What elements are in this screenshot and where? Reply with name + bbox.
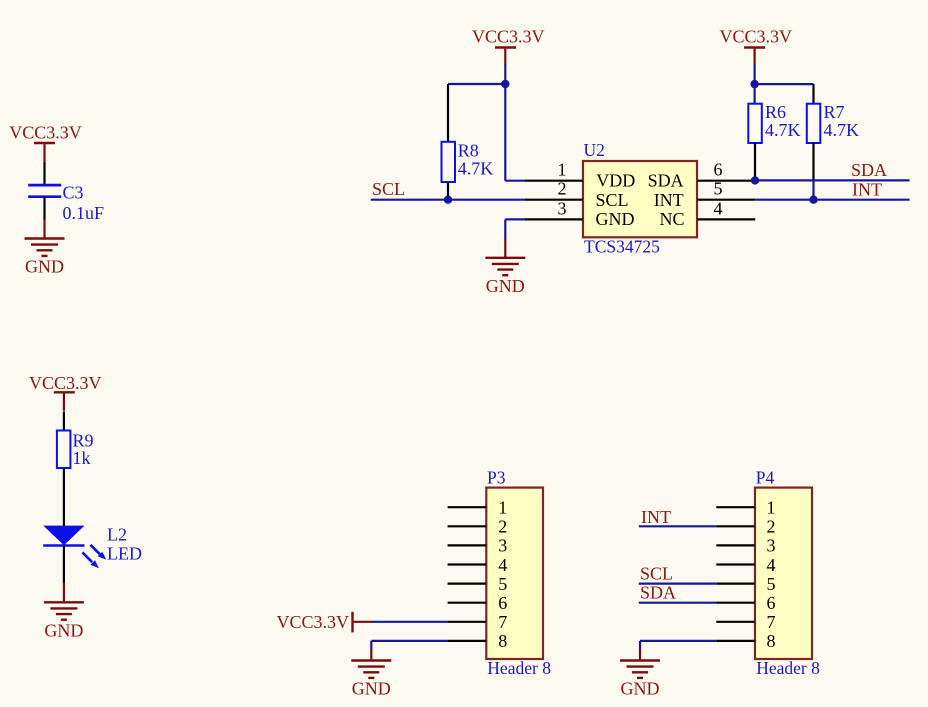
junction at R8 bottom / SCL [444,196,452,204]
svg-text:7: 7 [767,612,776,632]
wire P4 pin 8 to GND [640,641,716,650]
svg-text:Header 8: Header 8 [487,658,551,678]
svg-text:8: 8 [498,631,507,651]
junction VCC/R6/R7 [750,80,758,88]
P3 pin 5 [448,574,508,594]
wire C3 bottom to GND [43,197,45,220]
wire R9 to LED [63,468,65,526]
svg-text:2: 2 [498,517,507,537]
svg-text:2: 2 [767,517,776,537]
svg-text:TCS34725: TCS34725 [584,236,660,256]
wire net INT to P4 pin 2 [639,525,717,527]
svg-text:7: 7 [498,612,507,632]
junction R7/INT [809,196,817,204]
P4 pin 2 [716,517,775,537]
svg-text:GND: GND [25,257,64,277]
svg-text:VCC3.3V: VCC3.3V [720,27,793,47]
svg-text:INT: INT [641,507,671,527]
P3 pin 1 [448,498,508,518]
wire VCC to P3 pin 7 [371,621,447,623]
svg-text:SCL: SCL [372,179,405,199]
svg-text:NC: NC [659,209,684,229]
svg-text:6: 6 [767,593,776,613]
svg-text:GND: GND [44,620,83,640]
svg-text:INT: INT [852,179,882,199]
resistor R9 1k [57,431,94,469]
svg-text:SCL: SCL [640,564,673,584]
wire LED to GND [63,546,65,584]
svg-text:R8: R8 [458,140,479,160]
pin 5 INT [654,179,756,210]
pin 4 NC [659,198,755,229]
wire branch to R7 [755,83,814,85]
wire net SCL to P4 pin 5 [639,582,717,584]
svg-text:5: 5 [498,574,507,594]
svg-text:6: 6 [498,593,507,613]
svg-text:3: 3 [558,198,567,218]
svg-text:U2: U2 [584,140,605,160]
svg-text:4: 4 [714,198,723,218]
ground at LED [44,583,84,641]
svg-text:2: 2 [558,179,567,199]
svg-text:L2: L2 [107,524,127,544]
svg-text:Header 8: Header 8 [756,658,820,678]
svg-text:VDD: VDD [596,170,635,190]
wire VCC down to R6 [753,65,755,105]
power port VCC3.3V at R8 [472,27,545,66]
svg-text:5: 5 [767,574,776,594]
svg-text:VCC3.3V: VCC3.3V [29,373,102,393]
P3 pin 3 [448,536,508,556]
svg-text:5: 5 [714,179,723,199]
svg-text:SDA: SDA [640,583,676,603]
pin 2 SCL [525,179,629,210]
svg-text:LED: LED [107,543,142,563]
P3 pin 8 [448,631,508,651]
svg-text:VCC3.3V: VCC3.3V [9,123,82,143]
resistor R8 4.7K [442,84,494,200]
power port VCC3.3V at P3 pin 7 [276,612,371,633]
LED L2 [43,524,142,568]
resistor R6 4.7K [748,102,800,180]
svg-text:C3: C3 [63,182,84,202]
svg-text:VCC3.3V: VCC3.3V [472,27,545,47]
svg-text:4.7K: 4.7K [824,120,860,140]
P3 pin 7 [448,612,508,632]
svg-text:3: 3 [498,536,507,556]
pin 3 GND [525,198,635,229]
LED light arrow 1 [90,545,100,555]
svg-text:4: 4 [767,555,776,575]
wire branch to R8 top [448,83,505,85]
wire pin 3 to GND [505,219,525,239]
svg-text:4: 4 [498,555,507,575]
P4 pin 8 [716,631,775,651]
svg-text:P4: P4 [756,467,775,487]
connector P4 Header 8 body [755,467,820,678]
svg-text:GND: GND [621,679,660,699]
pin 6 SDA [648,160,756,191]
power port VCC3.3V at C3 [9,123,82,164]
svg-text:R7: R7 [824,102,845,122]
op-amp U2 TCS34725 body [583,140,697,256]
svg-text:P3: P3 [487,467,506,487]
svg-text:R6: R6 [765,102,786,122]
ground at U2 [485,239,525,296]
svg-text:GND: GND [486,276,525,296]
svg-text:SDA: SDA [648,170,684,190]
ground at C3 [25,219,65,276]
svg-text:6: 6 [714,160,723,180]
power port VCC3.3V at R6/R7 [720,27,793,66]
P4 pin 1 [716,498,775,518]
svg-text:1: 1 [498,498,507,518]
svg-text:1: 1 [767,498,776,518]
P4 pin 6 [716,593,775,613]
wire net INT right [755,199,909,201]
ground at P4 [620,649,660,699]
junction at VCC/R8 branch [501,80,509,88]
P4 pin 3 [716,536,775,556]
wire VCC to R9 [63,411,65,430]
power port VCC3.3V at R9 [29,373,102,411]
junction R6/SDA [751,176,759,184]
P3 pin 6 [448,593,508,613]
wire VCC3.3V to C3 top [43,163,45,187]
P3 pin 2 [448,517,508,537]
LED light arrow 2 [82,552,92,562]
svg-text:GND: GND [596,209,635,229]
svg-text:4.7K: 4.7K [458,158,494,178]
svg-text:1: 1 [558,160,567,180]
svg-text:8: 8 [767,631,776,651]
P4 pin 7 [716,612,775,632]
ground at P3 [351,649,391,699]
P4 pin 5 [716,574,775,594]
wire VCC to pin 1 horizontal [505,180,525,182]
svg-text:INT: INT [654,190,684,210]
wire P3 pin 8 to GND [371,641,447,650]
svg-text:1k: 1k [73,448,91,468]
capacitor C3 0.1uF [28,182,104,223]
svg-text:GND: GND [352,679,391,699]
wire net SDA to P4 pin 6 [639,602,717,604]
wire net SDA right [755,179,910,181]
svg-text:4.7K: 4.7K [765,120,801,140]
wire VCC vertical to pin 1 [504,65,506,181]
wire net SCL [371,199,525,201]
P3 pin 4 [448,555,508,575]
svg-text:3: 3 [767,536,776,556]
svg-text:VCC3.3V: VCC3.3V [276,612,349,632]
wire R7 bottom to INT [812,180,814,200]
P4 pin 4 [716,555,775,575]
svg-text:SDA: SDA [851,160,887,180]
pin 1 VDD [525,160,635,191]
svg-text:SCL: SCL [596,190,629,210]
connector P3 Header 8 body [486,467,551,678]
svg-text:0.1uF: 0.1uF [63,203,105,223]
resistor R7 4.7K [807,84,859,180]
